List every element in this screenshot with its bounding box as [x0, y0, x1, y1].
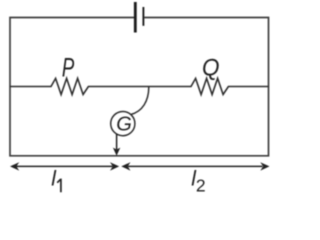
svg-text:2: 2	[196, 176, 206, 196]
svg-text:G: G	[116, 114, 132, 136]
svg-text:P: P	[62, 52, 75, 82]
svg-text:Q: Q	[202, 54, 220, 81]
